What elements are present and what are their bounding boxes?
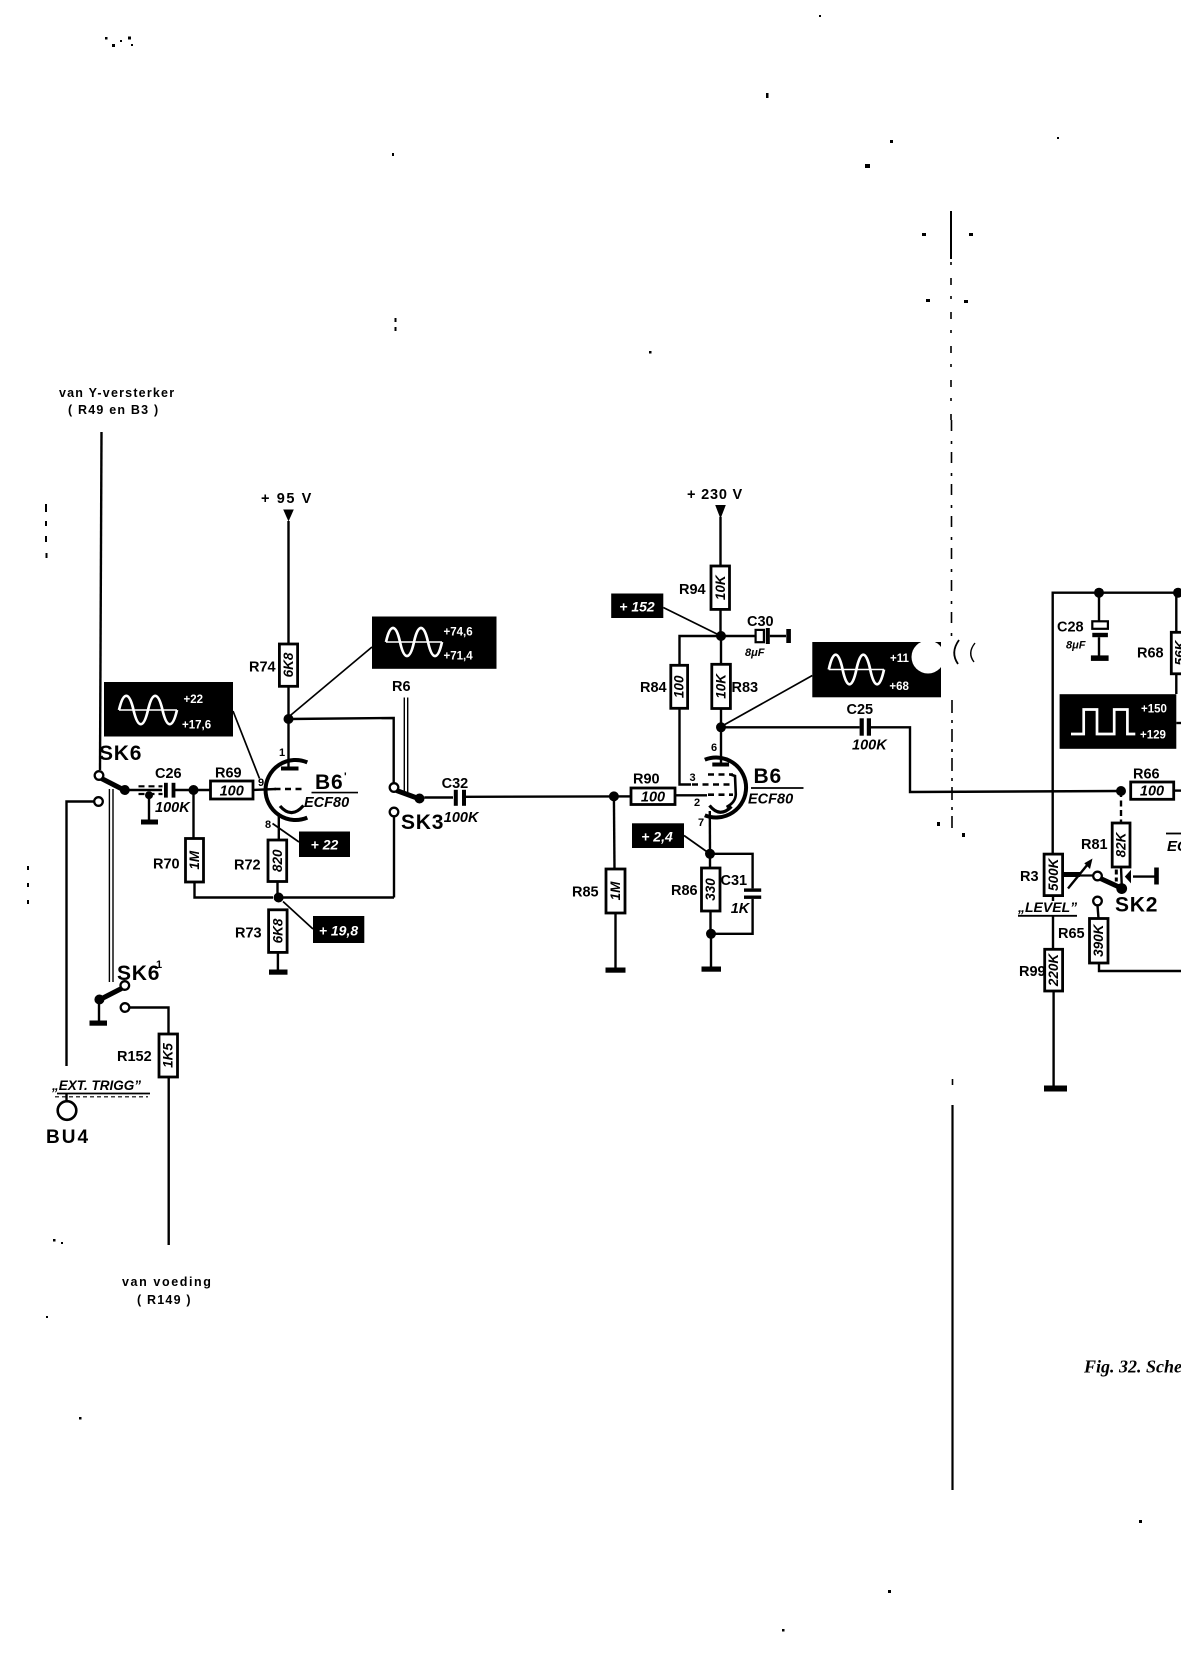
- wire R69 to grid pin 9: [253, 789, 276, 790]
- svg-text:1: 1: [156, 959, 162, 971]
- resistor R83: [712, 636, 758, 727]
- svg-text:+22: +22: [184, 694, 204, 706]
- resistor R84 (screen dropper): [640, 636, 721, 785]
- svg-text:C32: C32: [442, 776, 469, 792]
- wire C26 to R69, node A: [174, 789, 210, 791]
- svg-text:8μF: 8μF: [745, 647, 765, 659]
- svg-text:9: 9: [258, 777, 264, 789]
- svg-text:100: 100: [220, 784, 244, 800]
- ground below R85: [606, 968, 626, 973]
- capacitor C28: [1057, 593, 1108, 656]
- switch SK2: [1093, 872, 1158, 917]
- HT rail wire (top right): [1053, 593, 1181, 854]
- svg-text:+ 152: + 152: [619, 599, 655, 615]
- wire C32 to B6 grid node: [466, 795, 610, 798]
- svg-text:+129: +129: [1140, 730, 1166, 742]
- svg-text:1: 1: [279, 747, 285, 759]
- svg-text:R81: R81: [1081, 837, 1108, 853]
- svg-text:+ 19,8: + 19,8: [319, 923, 359, 939]
- resistor R68: [1137, 593, 1181, 694]
- svg-text:6K8: 6K8: [281, 652, 296, 677]
- resistor R90: [619, 772, 676, 806]
- SK2 fixed contact to terminal: [1115, 868, 1159, 885]
- svg-text:Fig. 32. Sche: Fig. 32. Sche: [1083, 1357, 1181, 1377]
- wire SK6' to R152: [130, 1008, 169, 1035]
- switch SK3: [390, 783, 445, 897]
- svg-text:R66: R66: [1133, 767, 1160, 783]
- resistor R65: [1058, 905, 1181, 971]
- node H (R86/C31/ground): [706, 929, 716, 939]
- node K (rail/R68): [1173, 588, 1181, 598]
- node J (rail/C28): [1094, 588, 1104, 598]
- waveform inset W2 (+74,6 / +71,4 sine): [289, 617, 497, 718]
- svg-text:100: 100: [1140, 784, 1164, 800]
- LEVEL label: [1017, 896, 1077, 916]
- node F (C32/R90/R85): [609, 791, 619, 801]
- svg-text:R74: R74: [249, 660, 276, 676]
- voltage label +152: [611, 594, 717, 635]
- trigger line node L (R66/R81): [1116, 786, 1126, 796]
- svg-text:1M: 1M: [608, 881, 623, 901]
- svg-text:': ': [344, 771, 347, 783]
- svg-text:100K: 100K: [155, 800, 191, 816]
- svg-text:3: 3: [690, 772, 696, 784]
- waveform inset W3 (+110 / +68 sine): [723, 641, 945, 726]
- tube label fragment (next stage): [1166, 834, 1181, 856]
- resistor R66: [1131, 767, 1181, 800]
- svg-text:R152: R152: [117, 1049, 152, 1065]
- svg-text:10K: 10K: [714, 673, 729, 699]
- fold line (scan crease): [951, 211, 953, 1490]
- svg-text:R69: R69: [215, 766, 242, 782]
- tube label B6' ECF80: [304, 771, 358, 811]
- svg-text:R3: R3: [1020, 869, 1039, 885]
- svg-text:B6: B6: [315, 771, 343, 794]
- wire SK6 lower contact to BU4: [67, 802, 95, 1067]
- svg-text:+150: +150: [1141, 704, 1167, 716]
- resistor R99: [1019, 916, 1063, 1086]
- svg-text:( R49 en B3 ): ( R49 en B3 ): [68, 403, 159, 417]
- node E (R83/B6 anode/C25): [716, 722, 726, 732]
- svg-text:EC: EC: [1167, 838, 1181, 855]
- triode B6' envelope: [266, 760, 308, 820]
- svg-text:R73: R73: [235, 926, 262, 942]
- svg-text:330: 330: [703, 878, 718, 901]
- svg-text:8μF: 8μF: [1066, 640, 1086, 652]
- node G (B6 cathode/R86/C31): [705, 849, 715, 859]
- svg-text:1K5: 1K5: [161, 1043, 176, 1068]
- voltage label +19,8: [283, 902, 364, 944]
- svg-text:van Y-versterker: van Y-versterker: [59, 386, 175, 400]
- svg-text:+71,4: +71,4: [444, 651, 474, 663]
- svg-text:C31: C31: [721, 873, 748, 889]
- svg-text:+ 2,4: + 2,4: [641, 829, 673, 845]
- wire C25 to trigger stage: [871, 727, 1121, 792]
- svg-text:R72: R72: [234, 858, 261, 874]
- svg-text:1M: 1M: [187, 850, 202, 870]
- node C (B6' anode / R74): [284, 714, 294, 724]
- EXT.TRIGG input label: [51, 1078, 150, 1097]
- svg-text:100: 100: [672, 675, 687, 698]
- svg-text:R90: R90: [633, 772, 660, 788]
- socket BU4: [46, 1101, 90, 1148]
- svg-text:820: 820: [270, 849, 285, 872]
- van voeding (R149) label: [122, 1275, 213, 1307]
- B6' grid (pin 9) dashes: [275, 788, 303, 791]
- B6' anode (pin 1): [279, 719, 299, 771]
- svg-text:+ 95 V: + 95 V: [261, 491, 313, 507]
- potentiometer R3 (LEVEL): [1020, 854, 1063, 896]
- svg-text:C28: C28: [1057, 620, 1084, 636]
- svg-text:„EXT. TRIGG”: „EXT. TRIGG”: [51, 1078, 141, 1093]
- svg-text:100K: 100K: [444, 810, 480, 826]
- svg-text:+17,6: +17,6: [182, 720, 211, 732]
- node B (R70/R72/R73/SK3): [274, 893, 284, 903]
- svg-text:BU4: BU4: [46, 1127, 90, 1148]
- svg-text:van voeding: van voeding: [122, 1275, 213, 1289]
- B6 anode (pin 6): [711, 727, 729, 766]
- resistor R74: [249, 644, 298, 719]
- resistor R73: [235, 910, 287, 953]
- svg-text:10K: 10K: [713, 574, 728, 600]
- R3 wiper arm: [1063, 859, 1094, 889]
- svg-text:R99: R99: [1019, 964, 1046, 980]
- ground below R73: [269, 952, 288, 974]
- resistor R86: [671, 854, 720, 934]
- svg-text:1K: 1K: [731, 901, 751, 917]
- svg-text:+11: +11: [890, 653, 909, 665]
- capacitor C25: [721, 702, 888, 754]
- svg-text:B6: B6: [754, 765, 782, 788]
- ground below C28: [1091, 655, 1109, 661]
- svg-text:R85: R85: [572, 885, 599, 901]
- svg-text:2: 2: [694, 797, 700, 809]
- ground below R99: [1044, 1086, 1067, 1092]
- B6' cathode (pin 8): [265, 806, 304, 841]
- B6 cathode (pin 7): [698, 806, 732, 854]
- svg-text:„LEVEL”: „LEVEL”: [1017, 899, 1077, 915]
- svg-text:390K: 390K: [1091, 923, 1106, 957]
- capacitor C30: [721, 614, 791, 659]
- svg-text:R84: R84: [640, 680, 667, 696]
- resistor R85: [572, 796, 625, 968]
- B6 grid g3 dashes: [708, 773, 733, 776]
- svg-text:+74,6: +74,6: [444, 627, 473, 639]
- resistor R81: [1081, 791, 1130, 884]
- svg-text:100K: 100K: [852, 738, 888, 754]
- svg-text:SK3: SK3: [401, 811, 444, 834]
- svg-text:R83: R83: [732, 680, 759, 696]
- svg-text:+ 230 V: + 230 V: [687, 487, 743, 503]
- ground below R86: [702, 934, 722, 972]
- switch SK6': [94, 959, 162, 1012]
- voltage label +22: [273, 824, 351, 858]
- resistor R152: [117, 1034, 178, 1245]
- svg-text:7: 7: [698, 817, 704, 829]
- note: van Y-versterker (R49 en B3) input label: [59, 386, 175, 417]
- svg-text:( R149 ): ( R149 ): [137, 1293, 192, 1307]
- node D (R94/C30/R83/R84): [716, 631, 726, 641]
- svg-text:R65: R65: [1058, 926, 1085, 942]
- svg-text:100: 100: [641, 790, 665, 806]
- svg-text:82K: 82K: [1114, 831, 1129, 857]
- svg-text:R70: R70: [153, 857, 180, 873]
- svg-text:C30: C30: [747, 614, 774, 630]
- svg-text:56K: 56K: [1173, 639, 1181, 665]
- ground below SK6': [90, 1002, 108, 1026]
- B6 control grid (pin 2) dashes: [675, 795, 733, 809]
- svg-text:R94: R94: [679, 582, 706, 598]
- voltage label +2,4: [632, 823, 708, 852]
- svg-text:ECF80: ECF80: [304, 795, 349, 811]
- capacitor C32: [424, 776, 480, 826]
- svg-text:220K: 220K: [1046, 953, 1061, 988]
- scan artifact arcs: [954, 640, 959, 664]
- pentode B6 envelope: [705, 758, 746, 818]
- svg-text:R86: R86: [671, 883, 698, 899]
- B6 screen grid (pin 3) dashes: [690, 772, 735, 785]
- +95V supply: [261, 491, 313, 644]
- svg-text:+ 22: + 22: [311, 837, 339, 853]
- wire from Y-amplifier down to SK6: [100, 432, 102, 770]
- capacitor C31: [710, 854, 761, 934]
- svg-text:C25: C25: [847, 702, 874, 718]
- switch SK6: [94, 742, 142, 806]
- waveform inset W1 (+22 / +17,6 sine): [104, 682, 260, 779]
- svg-text:SK6: SK6: [99, 742, 142, 765]
- svg-text:R6: R6: [392, 679, 411, 695]
- resistor R70: [153, 790, 273, 898]
- waveform inset W4 (+150 / +129 square wave): [1060, 694, 1181, 749]
- svg-text:+68: +68: [889, 681, 909, 693]
- resistor R94: [679, 566, 730, 636]
- svg-text:C26: C26: [155, 766, 182, 782]
- control R6 (mechanical link to SK3): [392, 679, 411, 795]
- +230V supply: [687, 487, 743, 566]
- svg-text:6K8: 6K8: [270, 918, 285, 943]
- svg-text:8: 8: [265, 819, 271, 831]
- svg-text:500K: 500K: [1046, 857, 1061, 891]
- C26 shield ground: [141, 791, 158, 824]
- wire node C to SK3: [289, 718, 394, 784]
- tube label B6 ECF80: [748, 765, 804, 808]
- B6 suppressor tie to cathode: [727, 775, 736, 808]
- svg-text:ECF80: ECF80: [748, 792, 793, 808]
- svg-text:R68: R68: [1137, 646, 1164, 662]
- resistor R72: [234, 840, 287, 894]
- svg-text:6: 6: [711, 742, 717, 754]
- capacitor C26 with shield: [128, 766, 191, 816]
- mechanical link SK6 to SK6' (double line): [109, 789, 113, 982]
- svg-text:SK2: SK2: [1115, 894, 1158, 917]
- resistor R69: [211, 766, 254, 800]
